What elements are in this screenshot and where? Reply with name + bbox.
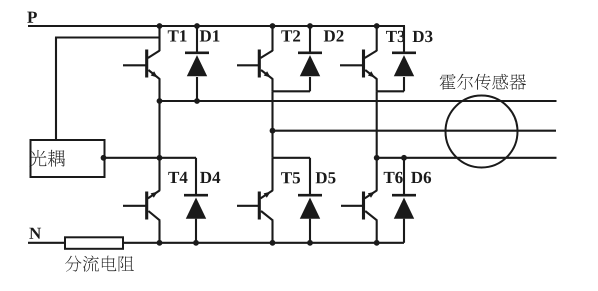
label D2 — [324, 30, 344, 41]
wire D6 anode drop — [403, 219, 405, 243]
wire leg2 phase drop — [271, 91, 273, 130]
wire T2 emitter drop — [271, 79, 273, 91]
node N D4 junction — [193, 240, 199, 246]
label D5 — [316, 172, 336, 183]
wire T5-D5 top link — [273, 157, 311, 159]
node opto out junction — [101, 155, 107, 161]
wire phase line 2 — [271, 130, 557, 132]
label T4 — [168, 172, 187, 183]
wire T1 collector drop — [158, 26, 160, 51]
node D1 top junction — [194, 23, 200, 29]
diode D2 — [309, 26, 311, 53]
node T1 top junction — [157, 23, 163, 29]
wire leg1 phase drop to line3 — [158, 101, 160, 158]
node phase3 T6 junction — [374, 155, 380, 161]
wire T4 emitter drop — [158, 220, 160, 243]
label D3 — [413, 31, 433, 43]
wire phase line 1 — [158, 100, 557, 102]
node phase2 T2 junction — [270, 128, 276, 134]
label T6 — [384, 172, 403, 184]
transistor T5 — [258, 192, 261, 220]
diode D1 — [196, 26, 198, 53]
node N T5 junction — [270, 240, 276, 246]
diode D3 — [403, 26, 405, 53]
node D2 top junction — [307, 23, 313, 29]
wire T3 collector drop — [376, 26, 378, 51]
wire T4 collector drop — [158, 158, 160, 191]
transistor T2 — [258, 50, 261, 78]
wire leg3 phase drop — [376, 91, 378, 158]
label D1 — [200, 30, 220, 41]
wire optocoupler drop — [55, 38, 57, 141]
label T5 — [281, 172, 300, 183]
resistor shunt — [65, 237, 123, 249]
wire D4 anode drop — [195, 219, 197, 243]
node P label — [27, 12, 37, 23]
transistor T1 — [145, 50, 148, 78]
node N label — [29, 228, 41, 239]
label 霍尔传感器 — [440, 74, 526, 90]
wire leg2 drop to line3 — [271, 131, 273, 158]
label D6 — [411, 172, 431, 184]
transistor T6 — [362, 192, 365, 220]
label 光耦 — [29, 150, 65, 167]
diode D6 — [403, 158, 405, 195]
label 分流电阻 — [65, 256, 134, 272]
optocoupler box — [31, 140, 105, 177]
node line3 T4 junction — [157, 155, 163, 161]
node phase1 T1 junction — [157, 98, 163, 104]
node N T6 junction — [374, 240, 380, 246]
node phase1 D1 junction — [194, 98, 200, 104]
wire T6 emitter drop — [376, 220, 378, 243]
node N T4 junction — [157, 240, 163, 246]
label T2 — [281, 30, 300, 41]
wire T1 emitter drop — [158, 79, 160, 101]
wire T5 collector drop — [271, 158, 273, 191]
label T1 — [168, 30, 187, 41]
transistor T4 — [145, 192, 148, 220]
node N D5 junction — [307, 240, 313, 246]
wire T3/D3 junction link — [377, 90, 404, 92]
node phase3 D6 junction — [401, 155, 407, 161]
wire T2 collector drop — [271, 26, 273, 51]
transistor T3 — [362, 50, 365, 78]
wire T3 emitter drop — [376, 79, 378, 91]
wire D1 anode drop — [196, 77, 198, 101]
wire T2/D2 junction link — [273, 90, 311, 92]
node T2 top junction — [270, 23, 276, 29]
diode D4 — [195, 158, 197, 195]
node T3 top junction — [374, 23, 380, 29]
hall sensor circle — [446, 96, 518, 168]
label T3 — [386, 31, 405, 43]
wire gate line from optocoupler — [55, 36, 160, 38]
label D4 — [200, 172, 220, 183]
wire optocoupler to D4 top — [105, 157, 197, 159]
wire T5 emitter drop — [271, 220, 273, 243]
wire D3 anode drop — [403, 77, 405, 91]
diode D5 — [309, 158, 311, 195]
wire D5 anode drop — [309, 219, 311, 243]
wire P rail — [28, 25, 405, 27]
wire N rail — [28, 242, 404, 244]
wire D2 anode drop — [309, 77, 311, 91]
wire phase line 3 (right) — [377, 157, 557, 159]
wire T6 collector drop — [376, 158, 378, 191]
